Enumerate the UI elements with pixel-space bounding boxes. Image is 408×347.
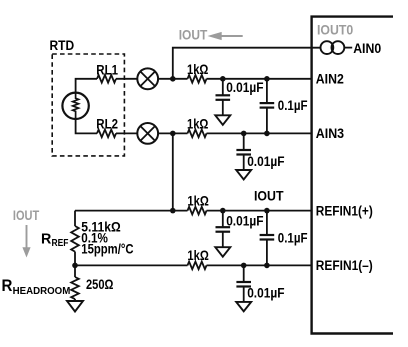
wire RL1 to switch 1 [116,78,137,80]
svg-text:0.01µF: 0.01µF [226,213,263,228]
junction REFIN1-/C5 [264,263,270,269]
svg-text:REF: REF [52,238,69,249]
svg-text:0.01µF: 0.01µF [226,80,263,95]
resistor R 1k (AIN3) [188,130,207,138]
wire RL2 to switch 2 [116,132,137,134]
wire RTD top to RL1 [76,79,97,92]
junction AIN2/C1 [220,76,226,82]
svg-text:R: R [2,277,13,295]
svg-text:RL1: RL1 [96,62,118,77]
svg-text:IOUT: IOUT [13,208,40,223]
wire 1k to AIN3 pin [207,132,312,134]
RHEADROOM label [2,277,71,297]
RTD sensor dashed enclosure [52,54,124,156]
junction REFIN1+/C4 [220,208,226,214]
resistor RHEADROOM 250ohm [71,265,79,301]
svg-text:REFIN1(+): REFIN1(+) [316,203,373,218]
junction AIN3/C2 [264,131,270,137]
RTD resistive sensor element [62,93,88,119]
resistor RL2 [97,130,116,138]
svg-text:REFIN1(–): REFIN1(–) [316,258,373,273]
ground for C1 [215,115,230,125]
junction REFIN1+/C5 [264,208,270,214]
wire switch 1 to node A [158,78,187,80]
junction AIN2/C2 [264,76,270,82]
capacitor C2 0.1uF (AIN2-AIN3) [260,79,275,134]
capacitor C6 0.01uF [236,265,251,302]
svg-text:0.1µF: 0.1µF [278,231,308,246]
wire node A up and right to IOUT0 current source [173,48,321,79]
svg-text:1kΩ: 1kΩ [187,248,209,263]
svg-text:0.1µF: 0.1µF [278,98,308,113]
svg-text:0.01µF: 0.01µF [247,285,284,300]
svg-text:1kΩ: 1kΩ [187,193,209,208]
svg-text:IOUT0: IOUT0 [317,22,353,37]
svg-text:RTD: RTD [50,38,75,53]
ground for C3 [236,170,251,180]
svg-text:1kΩ: 1kΩ [187,62,209,77]
resistor R 1k (REFIN1-) [188,262,207,270]
wire to AIN0 pin [344,47,352,49]
svg-text:AIN2: AIN2 [316,71,344,86]
junction RREF/RHEADROOM/REFIN1(-) [72,263,78,269]
capacitor C3 0.01uF [236,133,251,170]
resistor R 1k (AIN2) [188,75,207,83]
svg-text:R: R [41,231,52,247]
wire 1k to REFIN1(+) pin [207,210,312,212]
resistor RREF 5.11k [74,211,76,226]
node B junction [170,131,176,137]
wire REFIN1(+) row horizontal [75,210,188,212]
svg-text:1kΩ: 1kΩ [187,117,209,132]
svg-text:250Ω: 250Ω [86,277,114,292]
gray left-pointing IOUT arrow [208,32,243,40]
wire RTD bottom to RL2 [76,119,97,133]
mux switch 2 (crossed circle) [137,123,158,144]
svg-text:AIN0: AIN0 [353,41,381,56]
wire node B down to REFIN1(+) row [172,133,174,210]
resistor R 1k (REFIN1+) [188,207,207,215]
mux switch 1 (crossed circle) [137,68,158,89]
svg-text:HEADROOM: HEADROOM [13,286,71,297]
gray down-pointing IOUT arrow [22,225,30,258]
wire 1k to REFIN1(-) pin [207,264,312,266]
junction REFIN1-/C6 [241,263,247,269]
ground for C4 [215,247,230,257]
wire switch 2 to node B [158,132,187,134]
node A junction [170,76,176,82]
ground for C6 [236,302,251,312]
wire 1k to AIN2 pin [207,78,312,80]
svg-text:RL2: RL2 [96,117,118,132]
resistor RL1 [97,75,116,83]
current source U1 IOUT0 (double circle) [321,41,345,54]
svg-text:0.01µF: 0.01µF [247,154,284,169]
svg-text:15ppm/°C: 15ppm/°C [81,241,133,256]
junction AIN3/C3 [241,131,247,137]
svg-text:AIN3: AIN3 [316,126,344,141]
svg-text:IOUT: IOUT [254,188,284,203]
svg-text:IOUT: IOUT [179,28,208,43]
capacitor C5 0.1uF (REFIN1+ to REFIN1-) [260,211,275,266]
wire REFIN1(-) row horizontal [75,264,188,266]
IC U1 (ADC) outline bracket [312,17,393,334]
capacitor C4 0.01uF [216,211,231,248]
junction node B / REFIN1(+) [170,208,176,214]
ground for RHEADROOM [67,301,83,312]
RREF label [41,231,69,249]
capacitor C1 0.01uF [216,79,231,116]
